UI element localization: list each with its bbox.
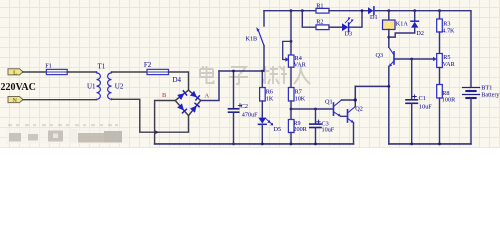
junction R2 branch top [301, 9, 304, 12]
bridge diode top-right [190, 91, 201, 101]
wire D1 to rail corner [374, 11, 471, 87]
junction K1A top [387, 9, 390, 12]
char ren [294, 66, 310, 84]
junction R4 bracket [290, 40, 293, 43]
junction R4 column top [290, 9, 293, 12]
wire Q3 base to R5 wiper [394, 58, 433, 60]
wire L to F1 [23, 71, 46, 73]
wire R2 branch [302, 11, 316, 28]
svg-text:10uF: 10uF [322, 126, 335, 133]
junction D3 branch rejoin [361, 9, 364, 12]
resistor R5 VAR [437, 54, 443, 68]
svg-text:Q2: Q2 [355, 106, 363, 113]
junction R8 bottom [438, 143, 441, 146]
junction collector node [387, 85, 390, 88]
svg-text:L: L [13, 69, 17, 76]
capacitor C3 [310, 109, 321, 144]
svg-text:A: A [205, 93, 210, 100]
svg-text:R5: R5 [443, 54, 450, 61]
resistor R4 column [290, 11, 292, 55]
resistor R2 [316, 25, 329, 30]
svg-text:Battery: Battery [481, 91, 500, 98]
svg-text:Q3: Q3 [376, 52, 384, 59]
wire F1 to transformer [67, 71, 96, 73]
svg-text:10K: 10K [295, 95, 306, 102]
svg-text:220VAC: 220VAC [1, 82, 36, 93]
bridge diode bottom-left [177, 103, 187, 114]
junction C1 top [410, 58, 413, 61]
wire bridge B to bottom rail [155, 101, 176, 144]
watermark mosaic bottom-left [6, 124, 128, 144]
svg-text:R2: R2 [316, 19, 323, 26]
wire R9 to rail [290, 133, 292, 144]
junction D2 tie [387, 36, 390, 39]
junction R3 top [438, 9, 441, 12]
wire arrow on ac wire [155, 130, 160, 134]
svg-text:R3: R3 [443, 20, 450, 27]
wire F2 to bridge top [169, 72, 189, 90]
junction base node [290, 108, 293, 111]
bottom rail left [155, 143, 354, 145]
R5 wiper arrow [433, 57, 437, 61]
svg-text:B: B [162, 92, 167, 99]
resistor R9 [288, 120, 294, 133]
wire R8 to rail [439, 98, 441, 144]
transistor Q3 [389, 47, 394, 66]
svg-text:U1: U1 [87, 82, 96, 90]
wire dc bus A+ [219, 70, 264, 72]
watermark: gray chinese characters [200, 66, 310, 84]
top rail [264, 10, 316, 12]
wire R5 to R8 [439, 68, 441, 85]
svg-text:F2: F2 [144, 61, 152, 69]
svg-text:470uF: 470uF [242, 111, 258, 118]
svg-text:Q1: Q1 [325, 98, 333, 105]
wire bridge A up to dc bus [201, 71, 219, 101]
svg-text:1K: 1K [266, 95, 274, 102]
wire R1 to D1 [329, 10, 368, 12]
junction C2 top [232, 70, 235, 73]
wire N to U1 bottom [23, 99, 97, 101]
transistor Q1 [334, 100, 342, 116]
diode D2 [389, 11, 419, 37]
wire Q2 collector tie [354, 86, 356, 106]
wire Q1 collector [342, 86, 356, 100]
junction R9 bottom [290, 143, 293, 146]
switch K1B [256, 11, 264, 71]
svg-text:D1: D1 [370, 14, 378, 21]
svg-text:F1: F1 [45, 62, 52, 69]
junction D5 bottom [261, 143, 264, 146]
resistor R3 [437, 11, 443, 32]
transformer T1 winding U2 [108, 72, 112, 100]
relay coil K1A [383, 11, 396, 48]
svg-text:K1A: K1A [396, 20, 409, 27]
junction C1 bottom [410, 143, 413, 146]
wire collectors to right vertical [355, 85, 389, 87]
svg-text:D5: D5 [274, 126, 282, 133]
svg-text:D4: D4 [173, 76, 182, 84]
wire R3 to R5 [439, 32, 441, 54]
junction C3 bottom [314, 143, 317, 146]
resistor R4 VAR [288, 55, 294, 67]
junction collector tie [354, 98, 357, 101]
wire Q2 emitter down [353, 123, 355, 144]
led D5 [258, 101, 273, 144]
wire R2 to D3 [329, 26, 342, 28]
svg-text:T1: T1 [98, 62, 106, 70]
bridge diode top-left [177, 90, 188, 100]
bridge rectifier D4 outline [175, 90, 201, 115]
char lan [262, 66, 287, 84]
svg-text:200R: 200R [293, 126, 307, 133]
svg-text:D2: D2 [416, 30, 424, 37]
junction R6 top [261, 70, 264, 73]
resistor R6 [260, 71, 266, 101]
resistor R8 [437, 85, 443, 99]
junction D2 top [413, 9, 416, 12]
svg-text:VAR: VAR [443, 61, 456, 68]
led D3 [342, 17, 354, 31]
resistor R1 [316, 8, 329, 13]
wire U2 bottom to bridge bottom [112, 99, 189, 132]
svg-text:10uF: 10uF [419, 103, 432, 110]
wire R4 to R7 [290, 67, 292, 87]
transistor Q2 [348, 107, 356, 123]
fuse F2 [147, 69, 169, 74]
wire Q3 emitter down [388, 66, 390, 143]
capacitor C1 [406, 59, 417, 144]
fuse F1 [46, 69, 67, 74]
svg-text:R1: R1 [316, 2, 323, 9]
wire R7 to R9 [290, 101, 292, 120]
svg-text:4.7K: 4.7K [442, 27, 455, 34]
wire base node to Q1 [291, 108, 333, 110]
R4 wiper bracket [283, 41, 291, 61]
char zi [229, 67, 248, 84]
junction C3 top [314, 108, 317, 111]
wire battery bottom [470, 98, 472, 144]
wire Q1 emitter to Q2 base [341, 115, 348, 117]
wire D3 to rail [349, 11, 362, 28]
resistor R7 [288, 88, 294, 102]
svg-text:K1B: K1B [246, 36, 258, 43]
svg-text:N: N [12, 97, 17, 104]
diode D1 [368, 7, 374, 15]
svg-text:U2: U2 [115, 82, 124, 90]
wire U2 top to F2 [112, 71, 148, 73]
bridge diode bottom-right [190, 102, 200, 113]
bottom rail right [389, 143, 471, 145]
connector pin L [8, 69, 23, 77]
svg-text:D3: D3 [345, 31, 353, 38]
junction C2 bottom [232, 143, 235, 146]
connector pin N [8, 97, 23, 105]
svg-text:C2: C2 [241, 103, 248, 110]
char dian [200, 66, 214, 83]
capacitor C2 [229, 71, 242, 144]
svg-text:VAR: VAR [294, 62, 307, 69]
battery BT1 [463, 88, 480, 99]
svg-text:C1: C1 [419, 95, 426, 102]
transformer T1 winding U1 [97, 72, 101, 100]
svg-text:100R: 100R [442, 96, 456, 103]
